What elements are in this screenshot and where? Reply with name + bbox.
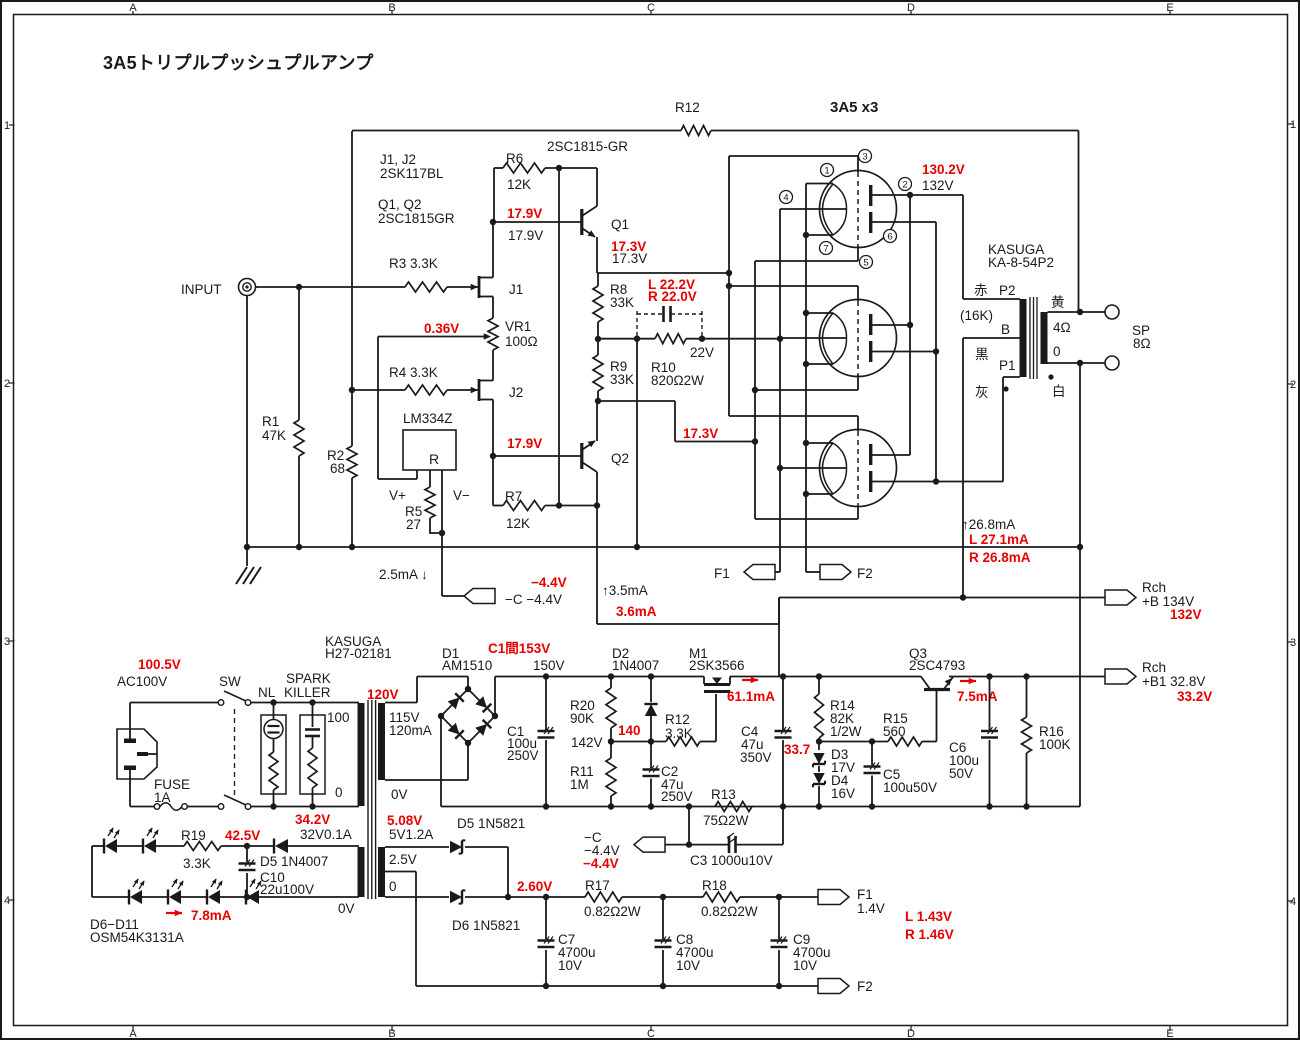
diode D2 1N4007 [612,646,659,745]
resistor R9 33K [593,339,634,404]
resistor R16 100K [1022,677,1071,807]
PSU ground rail 0V [441,803,1080,809]
svg-text:1M: 1M [570,777,589,792]
svg-text:C3 1000u10V: C3 1000u10V [690,853,773,868]
speaker output wires and terminals [1048,305,1151,370]
svg-text:22V: 22V [690,345,714,360]
svg-text:250V: 250V [507,748,539,763]
svg-text:3A5トリプルプッシュプルアンプ: 3A5トリプルプッシュプルアンプ [103,52,374,73]
svg-text:R12: R12 [665,712,690,727]
svg-text:4: 4 [783,192,788,203]
svg-text:10V: 10V [676,958,700,973]
svg-text:2SC4793: 2SC4793 [909,658,965,673]
speaker common to ground wire [1079,363,1081,807]
zener D4 16V [813,766,855,807]
svg-text:R 22.0V: R 22.0V [648,289,697,304]
svg-text:2.60V: 2.60V [517,879,552,894]
LED chain D6-D11 [90,917,184,945]
resistor R11 1M [570,742,616,807]
tube V2 plate leads [872,322,939,355]
spark killer [284,671,331,794]
svg-text:P1: P1 [999,358,1016,373]
coupling capacitor with dashed leads [637,306,702,339]
wire R6 node down to R7 node [558,168,560,506]
wire Q1 emitter 17.3V node [597,272,729,274]
svg-text:820Ω2W: 820Ω2W [651,373,704,388]
grid drive bus from Q1 [726,156,732,416]
svg-text:D6 1N5821: D6 1N5821 [452,918,520,933]
svg-text:KA-8-54P2: KA-8-54P2 [988,255,1054,270]
svg-text:R17: R17 [585,878,610,893]
transistor Q1 2SC1815 [490,168,629,273]
svg-text:AC100V: AC100V [117,674,167,689]
svg-text:100K: 100K [1039,737,1071,752]
svg-text:D5 1N4007: D5 1N4007 [260,854,328,869]
svg-text:SPARK: SPARK [286,671,331,686]
svg-text:7.5mA: 7.5mA [957,689,998,704]
svg-text:NL: NL [258,685,276,700]
svg-text:(16K): (16K) [960,308,993,323]
svg-text:33.2V: 33.2V [1177,689,1212,704]
svg-text:22u100V: 22u100V [260,882,314,897]
wire R8/R10 node to ground [636,339,638,547]
power switch SW [218,674,359,810]
diode D5 1N4007 [260,839,359,870]
svg-text:黒: 黒 [975,347,989,362]
svg-text:0: 0 [335,785,343,800]
label 61.1mA [727,677,775,704]
grid drive bus from Q2 [752,261,758,519]
capacitor C5 100u50V [864,742,938,807]
svg-text:KILLER: KILLER [284,685,331,700]
svg-text:142V: 142V [571,735,603,750]
svg-text:0.36V: 0.36V [424,321,459,336]
labels 17.9V at Q1 base [507,206,543,243]
resistor R10 820ohm 2W [598,334,780,388]
150V / +B rail [495,673,1105,679]
output tube V2 3A5 [820,286,897,390]
ground bus [244,544,1083,550]
svg-text:350V: 350V [740,750,772,765]
svg-text:2SC1815GR: 2SC1815GR [378,211,455,226]
MOSFET M1 2SK3566 [689,646,745,692]
current source LM334Z with R5 [378,411,470,533]
label 3A5 x3 [830,99,878,116]
tag F1 filament upper [714,565,780,582]
svg-text:17.9V: 17.9V [507,436,542,451]
svg-text:R4 3.3K: R4 3.3K [389,365,438,380]
label 17.9V at Q2 base [507,436,542,451]
tag Rch +B1 32.8V [1105,660,1212,704]
svg-text:VR1: VR1 [505,319,531,334]
wire Q2 emitter to tube grids 17.3V [598,401,755,442]
bridge rectifier D1 AM1510 [438,646,498,746]
OPT B tap wire to +B [963,338,1020,598]
capacitor C3 1000u 10V with -C tag [583,807,783,872]
transistor Q3 2SC4793 [909,646,965,742]
svg-text:1: 1 [1290,119,1296,131]
capacitor C1 100u 250V [507,677,555,807]
input connector INPUT [181,279,256,298]
svg-text:R 1.46V: R 1.46V [905,927,954,942]
filament ends bus [805,184,807,573]
svg-text:10V: 10V [558,958,582,973]
spark killer resistor [308,748,317,807]
resistor R20 90K [570,677,616,745]
labels 17.3V at Q1 emitter [611,239,647,266]
svg-text:2SK117BL: 2SK117BL [380,166,444,181]
plate bus lower to P1 [936,377,1020,482]
svg-text:F1: F1 [714,566,730,581]
svg-text:12K: 12K [506,516,530,531]
svg-text:100u50V: 100u50V [883,780,937,795]
resistor R18 0.82ohm 2W [701,878,818,919]
JFET J1 [471,222,524,318]
HV secondary wires to bridge [385,677,468,781]
capacitor C8 4700u 10V [655,897,714,986]
tag Rch +B 134V [779,580,1202,622]
svg-text:50V: 50V [949,766,973,781]
capacitor C7 4700u 10V [538,897,596,986]
tube V1 plate leads [872,192,936,482]
resistor R4 3.3K [349,365,447,395]
AC plug [117,729,157,779]
svg-text:LM334Z: LM334Z [403,411,453,426]
svg-text:16V: 16V [831,786,855,801]
svg-text:SW: SW [219,674,241,689]
svg-text:3: 3 [1290,637,1296,649]
svg-text:7: 7 [823,243,828,254]
capacitor C2 47u 250V [643,742,693,807]
svg-text:H27-02181: H27-02181 [325,646,392,661]
resistor R14 82K 1/2W [815,677,862,751]
svg-text:C1間153V: C1間153V [488,641,550,656]
labels C1 153V 150V [488,641,565,673]
svg-text:100Ω: 100Ω [505,334,538,349]
svg-text:17.3V: 17.3V [683,426,718,441]
svg-text:2SC1815-GR: 2SC1815-GR [547,139,628,154]
svg-text:1: 1 [4,120,10,132]
resistor R12psu 3.3K gate [611,694,716,746]
labels for devices J1 J2 Q1 Q2 [378,139,628,226]
resistor R15 560 [883,711,937,746]
svg-text:1A: 1A [154,790,171,805]
svg-text:AM1510: AM1510 [442,658,492,673]
wire LM334 V- to -C tag [442,533,469,596]
capacitor C4 47u 350V [740,677,810,807]
ground symbol [236,547,261,584]
svg-text:Q1, Q2: Q1, Q2 [378,197,422,212]
labels 34.2V 32V0.1A LV winding [295,812,352,842]
fuse FUSE 1A [154,777,218,810]
svg-text:140: 140 [618,723,641,738]
transistor Q2 2SC1815 [490,401,629,509]
output transformer KASUGA KA-8-54P2 [988,242,1054,379]
labels AC100V 100.5V [117,657,181,689]
svg-text:0.82Ω2W: 0.82Ω2W [701,904,758,919]
svg-text:白: 白 [1052,384,1066,399]
svg-text:Q1: Q1 [611,217,629,232]
svg-text:33K: 33K [610,372,634,387]
labels L 22.2V R 22.0V [648,277,697,304]
svg-text:17.9V: 17.9V [507,206,542,221]
labels 5.08V 5V1.2A [338,813,433,916]
tag F1 1.4V [818,887,954,942]
svg-text:R12: R12 [675,100,700,115]
svg-text:6: 6 [887,231,892,242]
OPT winding labels [960,283,1071,400]
bridge DC- wire [440,716,442,807]
svg-text:17.3V: 17.3V [612,251,647,266]
svg-text:120mA: 120mA [389,723,432,738]
svg-text:0.82Ω2W: 0.82Ω2W [584,904,641,919]
svg-text:90K: 90K [570,711,594,726]
svg-text:130.2V: 130.2V [922,162,965,177]
svg-text:↑3.5mA: ↑3.5mA [602,583,648,598]
svg-text:4Ω: 4Ω [1053,320,1071,335]
resistor R6 12K [494,151,597,222]
AC wiring to switch and fuse [130,703,218,807]
svg-text:42.5V: 42.5V [225,828,260,843]
svg-text:R3 3.3K: R3 3.3K [389,256,438,271]
resistor R7 12K [493,456,597,531]
svg-text:33.7: 33.7 [784,742,810,757]
svg-text:2.5mA ↓: 2.5mA ↓ [379,567,428,582]
LED row upper [92,828,184,854]
svg-text:↑26.8mA: ↑26.8mA [962,517,1015,532]
svg-text:5V1.2A: 5V1.2A [389,827,433,842]
svg-text:R 26.8mA: R 26.8mA [969,550,1031,565]
output tube V3 3A5 [820,416,897,519]
svg-text:12K: 12K [507,177,531,192]
label 7.8mA [166,908,232,923]
svg-text:3.3K: 3.3K [183,856,211,871]
svg-text:−4.4V: −4.4V [583,856,619,871]
svg-text:7.8mA: 7.8mA [191,908,232,923]
capacitor C6 100u 50V [949,677,998,807]
tube V3 filament wires [777,440,847,497]
tube V2 filament wires [777,310,847,367]
svg-text:J2: J2 [509,385,523,400]
svg-text:R18: R18 [702,878,727,893]
tube V1 grid2 wire [755,260,858,262]
svg-text:V+: V+ [389,488,406,503]
label 2.60V [517,879,552,894]
svg-text:10V: 10V [793,958,817,973]
resistor R3 3.3K [389,256,471,292]
resistor R19 3.3K [181,828,274,871]
JFET J2 [447,350,523,456]
svg-text:3.6mA: 3.6mA [616,604,657,619]
svg-text:34.2V: 34.2V [295,812,330,827]
svg-text:Rch: Rch [1142,660,1166,675]
bridge DC+ wire to 150V rail [494,677,496,717]
svg-text:1.4V: 1.4V [857,901,885,916]
svg-text:P2: P2 [999,283,1016,298]
LED row lower [92,846,359,905]
power transformer KASUGA H27-02181 [325,634,399,899]
resistor R2 68 on feedback box edge [327,131,357,547]
svg-text:3: 3 [4,636,10,648]
svg-text:+B1 32.8V: +B1 32.8V [1142,674,1205,689]
tag -C -4.4V [464,575,567,607]
svg-text:L 27.1mA: L 27.1mA [969,532,1029,547]
resistor R1 47K [262,287,304,547]
svg-text:250V: 250V [661,789,693,804]
resistor R17 0.82ohm 2W [584,878,703,919]
svg-text:J1, J2: J1, J2 [380,152,416,167]
labels 3.5mA [602,583,657,619]
svg-text:B: B [1001,322,1010,337]
svg-text:3A5 x3: 3A5 x3 [830,99,878,116]
base network wire [816,738,888,744]
tag F2 lower [818,979,873,995]
labels 130.2V 132V at plate [922,162,965,193]
svg-text:1: 1 [824,165,829,176]
svg-text:27: 27 [406,517,421,532]
svg-text:8Ω: 8Ω [1133,336,1151,351]
tube V2 grid wires [729,286,858,393]
svg-text:75Ω2W: 75Ω2W [703,813,749,828]
diode D5 1N5821 schottky [385,816,525,897]
svg-text:68: 68 [330,461,345,476]
svg-text:47K: 47K [262,428,286,443]
plate bus upper to P2 [910,195,1020,455]
svg-text:17.9V: 17.9V [508,228,543,243]
diode D6 1N5821 schottky [385,890,546,933]
wire Q2 collector to +B line [597,506,779,625]
svg-text:1N4007: 1N4007 [612,658,659,673]
resistor R13 75ohm 2W in ground rail [703,787,752,828]
NL series resistor [269,752,278,807]
wire input to R3 [256,284,406,290]
resistor R8 33K [593,273,634,342]
labels HV secondary [389,710,432,802]
svg-text:2SK3566: 2SK3566 [689,658,745,673]
svg-text:5.08V: 5.08V [387,813,422,828]
svg-text:L 1.43V: L 1.43V [905,909,952,924]
title [103,52,374,73]
svg-text:61.1mA: 61.1mA [727,689,775,704]
svg-text:1/2W: 1/2W [830,724,862,739]
svg-text:2: 2 [1290,379,1296,391]
filament center tap bus [779,209,781,572]
feedback box top wire with resistor R12 [352,100,1079,312]
resistor R5 27 [405,487,445,536]
svg-text:3: 3 [862,151,867,162]
svg-text:4: 4 [1290,896,1296,908]
svg-text:0V: 0V [391,787,408,802]
svg-text:−4.4V: −4.4V [531,575,567,590]
svg-text:F2: F2 [857,979,873,994]
potentiometer VR1 100 ohm [488,318,538,350]
svg-text:132V: 132V [922,178,954,193]
svg-text:F2: F2 [857,566,873,581]
svg-text:OSM54K3131A: OSM54K3131A [90,930,184,945]
svg-text:32V0.1A: 32V0.1A [300,827,352,842]
svg-text:黄: 黄 [1051,295,1065,310]
svg-text:0V: 0V [338,901,355,916]
svg-text:R13: R13 [711,787,736,802]
tube V3 grid wires [729,416,858,519]
svg-text:2: 2 [902,179,907,190]
svg-text:0: 0 [1053,344,1061,359]
svg-text:R1: R1 [262,414,279,429]
output tube V1 3A5 [820,156,897,261]
label 2.5mA [379,567,428,582]
neon lamp NL [258,685,286,794]
svg-text:2.5V: 2.5V [389,852,417,867]
VR1 wiper wire 0.36V [378,321,491,479]
svg-text:F1: F1 [857,887,873,902]
svg-text:赤: 赤 [974,283,988,298]
svg-text:−C −4.4V: −C −4.4V [505,592,562,607]
svg-text:V−: V− [453,488,470,503]
svg-text:100: 100 [327,710,350,725]
svg-text:4: 4 [4,895,10,907]
tag F2 filament upper [806,565,873,582]
filament return rail to F2 [385,872,818,990]
input jack ground wire [246,296,248,548]
svg-text:J1: J1 [509,282,523,297]
svg-text:Q2: Q2 [611,451,629,466]
zener D3 17V [813,747,855,775]
svg-text:2: 2 [4,378,10,390]
filament DC rail with R17 R18 [543,894,585,900]
labels 140 142V [571,723,641,750]
svg-text:150V: 150V [533,658,565,673]
tube V1 pin circles [780,150,912,269]
capacitor C9 4700u 10V [771,897,831,986]
svg-text:33K: 33K [610,295,634,310]
tube V3 plate leads [872,455,939,485]
labels plate current 26.8mA [962,517,1031,565]
svg-text:R19: R19 [181,828,206,843]
svg-text:0: 0 [389,879,397,894]
label 7.5mA [957,678,998,704]
+B feed from M1 rail [778,598,780,677]
capacitor C10 22u100V [239,846,315,897]
svg-text:Rch: Rch [1142,580,1166,595]
svg-text:INPUT: INPUT [181,282,222,297]
tube V1 grid1 wire [729,155,858,157]
svg-text:100.5V: 100.5V [138,657,181,672]
svg-text:灰: 灰 [975,385,989,400]
svg-text:120V: 120V [367,687,399,702]
tube V1 filament wires [780,184,847,239]
svg-text:R: R [429,451,439,467]
svg-text:D5 1N5821: D5 1N5821 [457,816,525,831]
svg-text:5: 5 [863,257,868,268]
svg-text:132V: 132V [1170,607,1202,622]
